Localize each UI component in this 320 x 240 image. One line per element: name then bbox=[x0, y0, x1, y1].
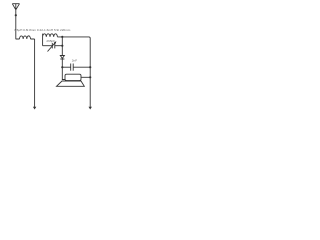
svg-text:2nF: 2nF bbox=[72, 59, 77, 63]
earphone BF1 horn bbox=[57, 81, 85, 86]
capacitor C2 bbox=[62, 64, 90, 71]
inductor L2 bbox=[43, 34, 58, 46]
diode VD1 bbox=[60, 46, 64, 67]
junction dot C1/diode bbox=[61, 45, 63, 47]
junction dot C2 right bbox=[89, 66, 91, 68]
wire earphone left bbox=[62, 67, 65, 79]
junction node tank top bbox=[61, 36, 63, 38]
variable capacitor C1 bbox=[43, 42, 63, 51]
ground (antenna earth, left) bbox=[33, 107, 36, 110]
ground (right) bbox=[89, 107, 92, 110]
wire L1 to ground bbox=[34, 39, 36, 107]
wire antenna lead bbox=[15, 10, 17, 39]
junction dot antenna bbox=[15, 14, 17, 16]
antenna ANT bbox=[12, 4, 19, 10]
junction dot detector out bbox=[61, 66, 63, 68]
arrowhead of C1 bbox=[54, 41, 57, 44]
svg-text:7.5µH 0.8t 8mm 0.22-1.6mH 5.9t: 7.5µH 0.8t 8mm 0.22-1.6mH 5.9t 220mm bbox=[14, 28, 71, 32]
svg-text:265pF: 265pF bbox=[46, 39, 55, 43]
inductor L1 bbox=[16, 36, 35, 39]
earphone BF1 capsule bbox=[65, 74, 81, 80]
wire earphone right bbox=[81, 76, 90, 78]
wire top rail to right bbox=[57, 37, 90, 107]
wire diode branch top bbox=[61, 37, 63, 46]
junction dot earphone right bbox=[89, 76, 91, 78]
